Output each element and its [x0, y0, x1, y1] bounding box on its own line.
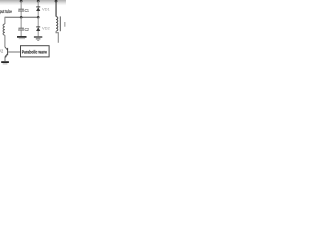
wire: horizontal bus — [5, 16, 38, 18]
svg-text:put tube: put tube — [0, 9, 12, 14]
diode VD2 — [36, 27, 40, 31]
svg-text:VD1: VD1 — [42, 6, 51, 11]
node dot top of C1 branch — [20, 0, 23, 3]
svg-text:C2: C2 — [25, 27, 30, 32]
block: Parabolic wave generator — [21, 46, 50, 57]
transistor V2 — [5, 47, 21, 61]
wire: coil to transistor collector — [4, 35, 6, 47]
wire: VD1 to bus junction — [37, 11, 39, 17]
wire: primary bottom jog — [56, 31, 58, 43]
svg-text:Parabolic wave: Parabolic wave — [22, 49, 48, 54]
transformer core line — [59, 16, 61, 31]
transformer primary winding (bumps right) — [56, 17, 58, 32]
wire: junction to VD2 — [37, 17, 39, 26]
wire: VD2 to ground — [37, 31, 39, 36]
inductor L (left coil, bumps left) — [3, 24, 5, 35]
wire: top to C1 — [20, 1, 22, 9]
svg-text:VD2: VD2 — [42, 26, 51, 31]
capacitor C1 — [18, 9, 24, 11]
wire: left drop from bus corner — [4, 17, 6, 24]
wire: bus to C2 — [20, 17, 22, 28]
wire: C1 to bus — [20, 11, 22, 17]
wire: top to transformer primary — [55, 1, 57, 17]
wire: top to VD1 — [37, 1, 39, 7]
ground (C2) — [17, 37, 27, 39]
junction dot at bus x=38 — [37, 16, 40, 19]
wire: C2 to ground — [20, 30, 22, 36]
node dot top of diode branch — [37, 0, 40, 3]
node dot top of transformer branch — [55, 0, 58, 3]
ground (VD2) — [34, 37, 42, 41]
diode VD1 — [36, 7, 40, 11]
junction dot at bus x=21 — [20, 16, 23, 19]
svg-text:C1: C1 — [25, 8, 30, 13]
ground (emitter) — [1, 62, 9, 64]
transformer secondary fragment at image edge — [64, 22, 66, 27]
capacitor C2 — [18, 28, 24, 30]
